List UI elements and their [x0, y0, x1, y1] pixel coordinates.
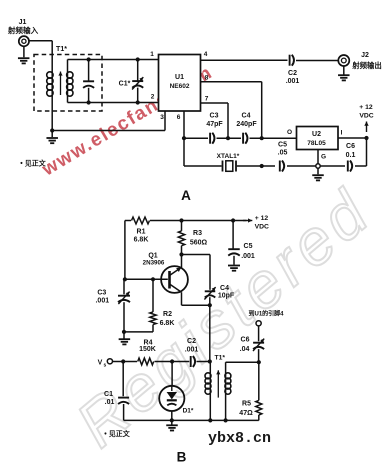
- resistor R3: [178, 221, 207, 255]
- terminal to U1 pin 4: [248, 310, 284, 326]
- capacitor C2: [286, 55, 300, 85]
- transformer T1 (B) secondary winding: [224, 362, 231, 422]
- svg-text:.01: .01: [105, 399, 115, 406]
- ground (T1 primary / pin 3): [46, 131, 58, 144]
- svg-text:XTAL1*: XTAL1*: [217, 153, 240, 160]
- svg-text:7: 7: [205, 96, 209, 103]
- wire U1 pin 4 to C2: [201, 59, 288, 61]
- svg-text:Q1: Q1: [148, 253, 157, 260]
- svg-text:.05: .05: [278, 150, 288, 157]
- wire Vs row: [113, 359, 212, 363]
- transformer T1 secondary winding: [67, 60, 73, 103]
- svg-text:• 见正文: • 见正文: [104, 429, 130, 438]
- wire +12 top rail (B): [125, 218, 247, 222]
- svg-text:V: V: [98, 360, 103, 367]
- svg-text:1: 1: [150, 51, 154, 58]
- svg-text:R5: R5: [242, 401, 251, 408]
- capacitor C6 (B, trimmer): [240, 326, 265, 362]
- resistor R1: [132, 217, 150, 243]
- wire 5V rail (C3/C4 row): [184, 136, 297, 140]
- wire C2 to J2: [296, 60, 338, 62]
- svg-text:10pF: 10pF: [218, 293, 235, 300]
- ground (D1): [166, 425, 178, 430]
- wire D1 to ground rail: [170, 411, 174, 425]
- svg-text:240pF: 240pF: [236, 121, 257, 128]
- ground (C5 B): [228, 266, 240, 271]
- wire collector node down to T1: [209, 305, 211, 361]
- svg-text:C4: C4: [242, 113, 251, 120]
- capacitor C1 (variable): [119, 57, 144, 104]
- svg-text:6.8K: 6.8K: [160, 320, 175, 327]
- transformer T1 primary winding: [47, 72, 53, 131]
- wire base bias rail: [123, 221, 168, 282]
- wire U1 pin 6 down: [182, 111, 186, 166]
- resistor R4: [138, 340, 156, 365]
- svg-text:R1: R1: [137, 229, 146, 236]
- svg-text:.001: .001: [241, 253, 255, 260]
- svg-text:47Ω: 47Ω: [239, 410, 253, 417]
- svg-text:C4: C4: [220, 285, 229, 292]
- wire U1 pin 7 to C3/C4 junction: [201, 103, 229, 138]
- svg-text:3: 3: [160, 114, 164, 121]
- svg-text:U1: U1: [175, 74, 184, 81]
- svg-text:射频输出: 射频输出: [351, 61, 382, 70]
- capacitor C6: [346, 143, 356, 172]
- shield box of T1 (dashed): [34, 55, 102, 112]
- svg-text:C2: C2: [288, 70, 297, 77]
- svg-text:R2: R2: [163, 311, 172, 318]
- op-amp U1 NE602: [159, 55, 201, 112]
- svg-text:C6: C6: [241, 337, 250, 344]
- svg-text:4: 4: [204, 51, 208, 58]
- connector J2: [338, 52, 382, 80]
- svg-text:47pF: 47pF: [206, 121, 223, 128]
- capacitor C3 (B): [95, 279, 130, 332]
- svg-text:C3: C3: [210, 113, 219, 120]
- svg-text:R3: R3: [193, 230, 202, 237]
- regulator U2 78L05: [297, 127, 339, 150]
- wire T1 secondary to C6 node: [226, 360, 261, 364]
- svg-text:C1*: C1*: [119, 81, 131, 88]
- +12 VDC supply (circuit B): [243, 215, 269, 231]
- transformer T1 (B) primary winding: [205, 362, 212, 423]
- resistor R2: [150, 279, 175, 332]
- svg-text:+ 12: + 12: [255, 215, 269, 222]
- svg-text:T1*: T1*: [56, 46, 67, 53]
- wire U1 pin 3 to ground: [50, 111, 165, 133]
- capacitor C2 (B): [185, 338, 199, 367]
- capacitor C3: [206, 113, 223, 144]
- T1 coupling arrow: [60, 72, 62, 96]
- capacitor C4: [236, 113, 257, 144]
- svg-text:D1*: D1*: [183, 408, 194, 415]
- capacitor C5: [278, 142, 288, 172]
- svg-text:6: 6: [177, 114, 181, 121]
- svg-text:NE602: NE602: [170, 83, 190, 90]
- svg-text:0.1: 0.1: [346, 152, 356, 159]
- wire U2 input to +12V: [338, 136, 369, 140]
- wire bottom ground rail (B): [124, 419, 259, 421]
- svg-text:.001: .001: [185, 347, 199, 354]
- transistor Q1 2N3906: [143, 253, 188, 293]
- svg-text:C2: C2: [187, 338, 196, 345]
- capacitor C5 (B): [228, 221, 255, 265]
- wire U1 pin 8 to 5V rail: [201, 82, 262, 139]
- terminal Vs: [98, 359, 113, 369]
- ground (U2): [312, 175, 324, 180]
- +12 VDC supply (circuit A): [359, 104, 373, 132]
- svg-text:A: A: [181, 188, 191, 203]
- watermark Registered (gray): [63, 174, 385, 460]
- svg-text:T1*: T1*: [215, 354, 226, 361]
- diode D1 (varactor): [159, 362, 194, 415]
- svg-text:.001: .001: [95, 298, 109, 305]
- svg-text:s: s: [104, 363, 107, 369]
- svg-text:.04: .04: [240, 346, 250, 353]
- svg-text:I: I: [341, 130, 343, 137]
- svg-text:560Ω: 560Ω: [190, 240, 208, 247]
- capacitor C1 (B): [104, 362, 129, 421]
- svg-text:G: G: [321, 154, 326, 161]
- svg-text:78L05: 78L05: [307, 140, 326, 147]
- svg-text:C5: C5: [244, 243, 253, 250]
- wire U2 ground pin: [316, 150, 320, 175]
- ground (C3/R2): [119, 339, 130, 344]
- svg-text:VDC: VDC: [359, 113, 373, 120]
- wire J1 to T1 primary: [29, 41, 52, 72]
- T1 (B) coupling arrow: [217, 370, 219, 397]
- svg-text:C3: C3: [97, 290, 106, 297]
- svg-text:射频输入: 射频输入: [7, 25, 39, 35]
- svg-text:• 见正文: • 见正文: [20, 159, 46, 168]
- svg-text:C1: C1: [104, 391, 113, 398]
- svg-text:6.8K: 6.8K: [134, 237, 149, 244]
- svg-text:C5: C5: [278, 142, 287, 149]
- wire emitter/R3/C4 node: [179, 252, 210, 289]
- svg-text:U2: U2: [312, 131, 321, 138]
- svg-text:ybx8.cn: ybx8.cn: [208, 430, 271, 447]
- svg-text:150K: 150K: [139, 346, 156, 353]
- wire collector to C4 bottom: [182, 292, 212, 307]
- wire C3/R2 to ground: [122, 330, 153, 339]
- capacitor C4 (trimmer): [204, 285, 234, 300]
- wire oscillator/bypass bottom row: [184, 138, 367, 168]
- crystal XTAL1: [217, 153, 240, 172]
- resistor R5: [239, 362, 262, 420]
- capacitor internal to T1: [83, 57, 94, 104]
- svg-text:2N3906: 2N3906: [143, 260, 165, 267]
- svg-text:O: O: [287, 129, 292, 136]
- svg-text:8: 8: [205, 75, 209, 82]
- wire tank bottom rail to U1 pin 2: [68, 102, 159, 104]
- svg-text:.001: .001: [286, 78, 300, 85]
- svg-text:J2: J2: [361, 52, 369, 59]
- svg-text:VDC: VDC: [255, 224, 269, 231]
- svg-text:B: B: [177, 450, 187, 464]
- svg-text:+ 12: + 12: [359, 104, 373, 111]
- wire tank top rail to U1 pin 1: [68, 59, 159, 61]
- svg-text:到U1的引脚4: 到U1的引脚4: [248, 310, 284, 318]
- svg-text:C6: C6: [346, 143, 355, 150]
- connector J1: [7, 19, 39, 63]
- svg-text:2: 2: [151, 94, 155, 101]
